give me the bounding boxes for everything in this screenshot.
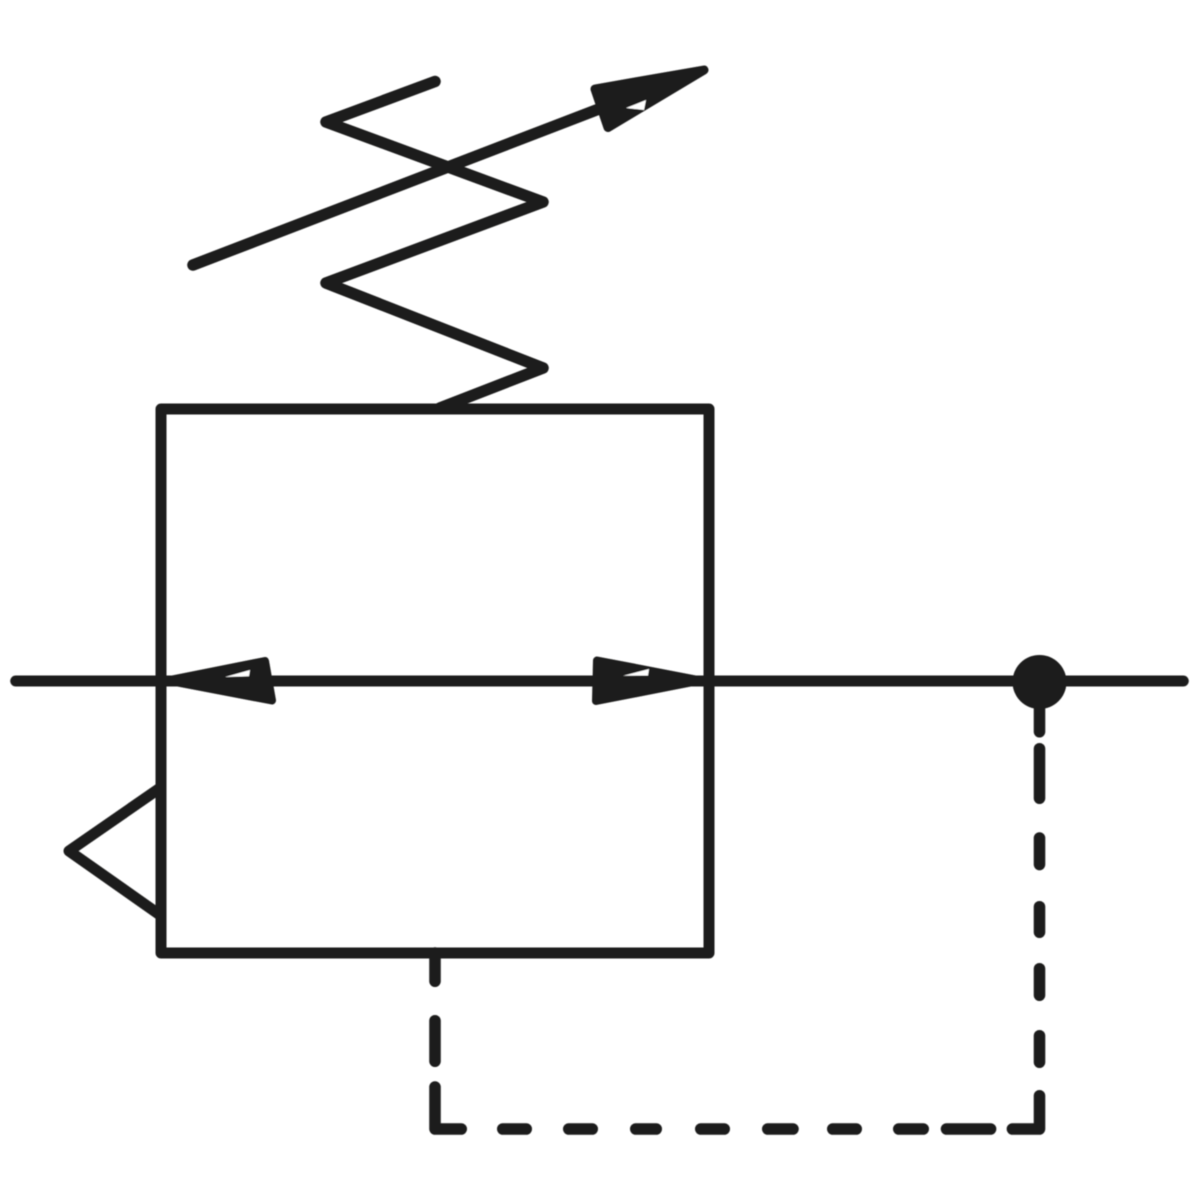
- adjustment arrowhead: [595, 70, 704, 128]
- valve body box: [161, 409, 709, 953]
- white notch in left flow arrowhead: [225, 670, 250, 677]
- left flow arrowhead: [167, 661, 272, 701]
- pilot line dashed: bottom dash 8 long: [947, 1123, 991, 1135]
- adjustment arrow shaft: [193, 74, 690, 265]
- pilot line dashed: right corner dash: [1012, 1096, 1039, 1129]
- junction node dot: [1013, 655, 1067, 709]
- pilot line dashed: stub below box: [429, 953, 441, 981]
- pilot line dashed: bottom dash 5: [768, 1123, 793, 1135]
- pilot line dashed: right vertical dash 2: [1034, 838, 1046, 865]
- white notch in adjustment arrowhead: [626, 100, 646, 110]
- pilot line dashed: right vertical dash 4: [1034, 969, 1046, 996]
- pilot line dashed: bottom dash 3: [636, 1123, 657, 1135]
- pilot line dashed: right vertical dash 3: [1034, 907, 1046, 933]
- pilot line dashed: bottom dash 4: [701, 1123, 725, 1135]
- pilot line dashed: bottom dash 6: [833, 1123, 857, 1135]
- pilot line dashed: left corner dash: [435, 1087, 461, 1129]
- spring (adjustable): [326, 82, 543, 409]
- right flow arrowhead: [596, 661, 701, 702]
- pilot line dashed: left vertical dash: [429, 1021, 441, 1062]
- pilot line dashed: stub below junction dot: [1034, 705, 1046, 732]
- pilot line dashed: right vertical dash 5: [1034, 1036, 1046, 1063]
- pilot line dashed: bottom dash 7: [899, 1123, 924, 1135]
- pilot exhaust triangle: [69, 788, 160, 915]
- wire main horizontal line P1-P2: [16, 676, 1184, 687]
- white notch in right flow arrowhead: [623, 669, 649, 676]
- pilot line dashed: bottom dash 1: [503, 1123, 527, 1135]
- pilot line dashed: bottom dash 2: [569, 1123, 593, 1135]
- pilot line dashed: right vertical dash 1 long: [1034, 749, 1046, 799]
